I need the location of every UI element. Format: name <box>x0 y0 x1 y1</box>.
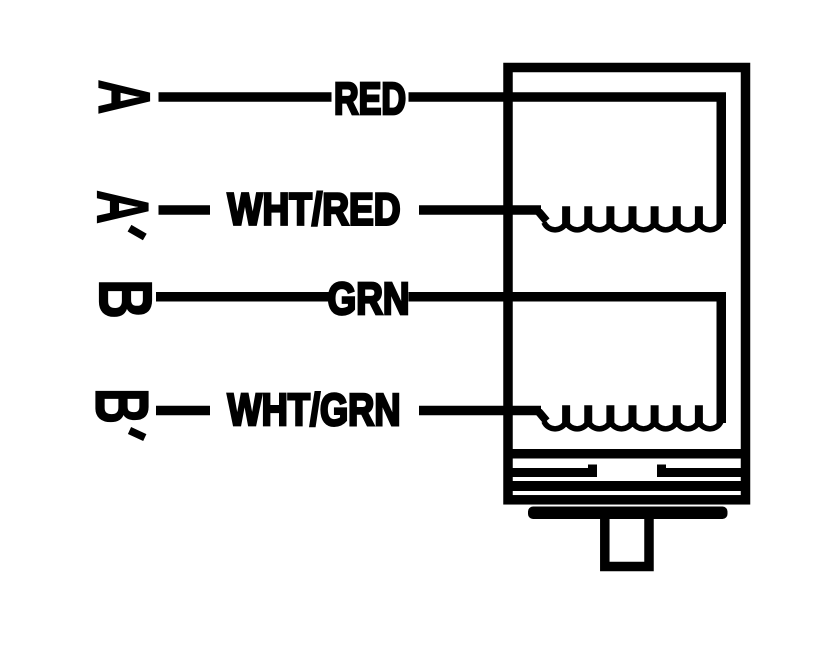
node B <box>84 279 168 319</box>
wire B' left segment <box>156 406 210 416</box>
node A' prime tick <box>130 228 145 237</box>
wire B label GRN <box>327 273 409 324</box>
svg-text:A: A <box>83 80 164 115</box>
wire A' label WHT/RED <box>227 184 400 235</box>
winding L1 coil <box>544 223 721 230</box>
wire A' step down to coil <box>539 212 547 222</box>
svg-text:B: B <box>84 279 168 319</box>
node A <box>83 80 164 115</box>
svg-text:A: A <box>82 190 163 224</box>
winding L2 coil risers <box>566 405 699 423</box>
wire A right segment into winding 1 <box>409 97 722 224</box>
wire B' label WHT/GRN <box>227 384 400 435</box>
motor base lower line <box>504 481 751 491</box>
svg-text:RED: RED <box>334 73 406 124</box>
motor case outline <box>508 68 746 500</box>
motor base right bracket <box>662 465 751 473</box>
node B' prime tick <box>130 431 145 438</box>
motor shaft <box>605 517 649 567</box>
motor base left bracket <box>504 465 593 473</box>
motor mounting flange <box>528 507 728 520</box>
wire B right segment into winding 2 <box>409 297 722 423</box>
wire B' step down to coil <box>539 412 547 422</box>
wire A left segment <box>159 92 332 102</box>
node A' <box>82 190 163 224</box>
winding L2 coil <box>544 422 721 429</box>
wire A label RED <box>334 73 406 124</box>
wire A' left segment <box>159 205 211 215</box>
winding L1 coil risers <box>566 206 699 224</box>
motor base divider line <box>504 449 751 459</box>
wire A' right segment <box>419 205 541 215</box>
wire B left segment <box>156 292 330 302</box>
wire B' right segment <box>419 406 541 416</box>
svg-text:WHT/RED: WHT/RED <box>227 184 400 235</box>
svg-text:GRN: GRN <box>327 273 409 324</box>
node B' <box>80 388 164 424</box>
svg-text:WHT/GRN: WHT/GRN <box>227 384 400 435</box>
svg-text:B: B <box>80 388 164 424</box>
